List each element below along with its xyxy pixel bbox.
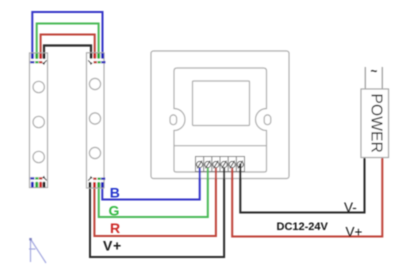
svg-text:B: B (110, 185, 120, 201)
solder pads LS2 bottom (+ R G B) (89, 182, 104, 188)
separator line above terminal housing (174, 145, 267, 147)
wire: G green from LS2 bottom pad to terminal 2 (99, 168, 208, 218)
cut mark LS1 top (42, 60, 46, 65)
controller U1 outer face plate (151, 51, 289, 179)
wire: black jumper strip LS1 top to strip LS2 top (44, 46, 91, 57)
LED D3 (33, 151, 44, 162)
AC input line right (381, 67, 383, 90)
LED strip LS1 (left) body (30, 53, 48, 188)
svg-text:POWER: POWER (367, 93, 384, 153)
svg-text:V+: V+ (346, 224, 363, 239)
svg-text:G: G (109, 203, 120, 219)
pad value labels LS1 bottom (30, 177, 42, 179)
wire: B blue from LS2 bottom pad to terminal 1 (102, 168, 199, 200)
wire: R red from LS2 bottom pad to terminal 3 (94, 168, 215, 237)
svg-text:DC12-24V: DC12-24V (277, 221, 329, 233)
wire: red jumper strip LS1 top to strip LS2 top (41, 35, 95, 57)
solder pads LS2 top (+ R G B) (90, 53, 104, 59)
wire stub terminal 6 black (239, 164, 241, 181)
pad value labels LS2 bottom (93, 178, 105, 180)
wire: V- black from terminal 6 to power supply (240, 156, 364, 213)
LED D4 (89, 78, 100, 89)
pad value labels LS1 top (30, 61, 42, 63)
LED D2 (33, 116, 44, 127)
svg-text:V+: V+ (103, 238, 122, 254)
screw 4 (221, 161, 227, 167)
svg-text:R: R (110, 220, 120, 236)
mounting slot right (264, 115, 271, 125)
wire stub terminal 2 green (207, 168, 209, 180)
cut mark LS1 bottom (42, 176, 46, 181)
svg-text:V-: V- (344, 200, 357, 215)
screw 6 (237, 161, 243, 167)
svg-text:~: ~ (371, 66, 378, 78)
wire stub terminal 5 red (231, 168, 233, 180)
wire: V+ black from LS2 bottom pad to terminal 4 (90, 168, 224, 258)
cut mark LS2 bottom (88, 176, 92, 181)
screw 1 (197, 161, 203, 167)
cursor mark bottom-left (29, 238, 46, 263)
terminal block TB1 (6 screw terminals) (196, 157, 245, 172)
cut mark LS2 top (88, 60, 92, 65)
wire stub terminal 4 black (223, 168, 225, 180)
wire: blue jumper strip LS1 top to strip LS2 top (32, 12, 102, 56)
solder pads LS1 top (B G R +) (31, 53, 46, 59)
screw 3 (213, 161, 219, 167)
AC input line left (364, 67, 366, 90)
wire: V+ red from terminal 5 to power supply (232, 156, 382, 237)
wire stub terminal 1 blue (199, 168, 201, 180)
LED D6 (89, 147, 100, 158)
display window (193, 81, 250, 126)
solder pads LS1 bottom (B G R +) (31, 182, 46, 188)
wire: green jumper strip LS1 top to strip LS2 top (37, 24, 99, 57)
LED D1 (33, 81, 44, 92)
LED strip LS2 (right) body (87, 53, 105, 188)
mounting slot left (170, 115, 177, 125)
screw 2 (205, 161, 211, 167)
controller U1 inner plate with mounting ears (174, 68, 267, 172)
screw 5 (229, 161, 235, 167)
LED D5 (89, 113, 100, 124)
power supply PS1 body (361, 89, 389, 158)
wire stub terminal 3 red (215, 168, 217, 180)
pad value labels LS2 top (94, 61, 106, 63)
